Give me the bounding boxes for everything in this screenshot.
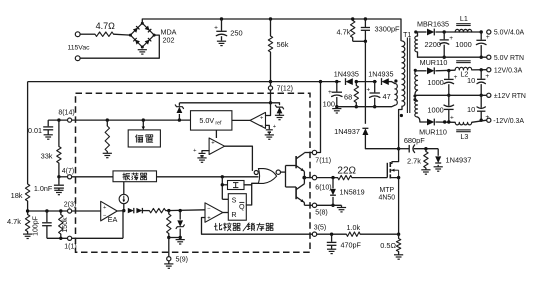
svg-text:1N4937: 1N4937 [334, 127, 360, 136]
NOR gate [258, 169, 276, 184]
terminal 115Vac line [75, 32, 80, 37]
svg-text:4.7k: 4.7k [337, 28, 351, 37]
resistor 33k [58, 120, 60, 146]
resistor 2.7k [425, 149, 427, 152]
wire osc out [157, 176, 259, 178]
capacitor 1.0nF [58, 177, 60, 185]
inductor L2 [456, 60, 471, 62]
current source [123, 182, 125, 195]
svg-text:250: 250 [230, 29, 242, 38]
resistor EA-comp [142, 210, 149, 212]
diode MUR110 a [427, 67, 434, 74]
block 5.0Vref [191, 111, 232, 130]
pin 5(9) [168, 238, 170, 257]
wire ±12V RTN [415, 94, 487, 96]
MOSFET drain stub [391, 149, 399, 164]
wire 6(10) row [317, 177, 338, 179]
svg-text:+: + [273, 124, 277, 130]
svg-text:56k: 56k [277, 40, 289, 49]
svg-text:18k: 18k [11, 191, 23, 200]
resistor 56k [269, 17, 272, 20]
bridge diode top-right [145, 26, 152, 33]
svg-text:10: 10 [467, 76, 475, 85]
bridge diode bottom-left [133, 38, 140, 45]
phasing dot aux [394, 79, 397, 82]
ground (Vref-OK ref) [197, 157, 206, 159]
MOSFET source stub [391, 177, 399, 179]
pin 3(5) [312, 232, 316, 236]
bias block 偏置 [142, 120, 144, 127]
wire comp to R [223, 212, 229, 214]
svg-text:R: R [231, 210, 236, 219]
label 比较器/锁存器 [214, 223, 222, 230]
wire [360, 233, 398, 235]
latch S/R [228, 194, 246, 221]
zener 36V Vcc [271, 103, 280, 105]
svg-text:+: + [103, 205, 107, 211]
ground (1.0nF) [54, 189, 63, 191]
pin 2(3) wire [28, 210, 68, 212]
capacitor 100 Vcc [336, 82, 338, 92]
svg-text:L3: L3 [460, 132, 468, 141]
pin 5(8) [312, 203, 316, 207]
resistor internal Vref [106, 120, 108, 126]
diode EA out a [117, 210, 125, 212]
svg-text:S: S [232, 196, 237, 205]
svg-text:3300pF: 3300pF [375, 25, 401, 34]
svg-text:Q: Q [239, 202, 245, 211]
pin 8(14) wire [48, 119, 67, 121]
resistor 68 [355, 82, 357, 86]
diode 1N4937 gate [437, 149, 439, 156]
svg-text:10: 10 [467, 105, 475, 114]
svg-text:115Vac: 115Vac [67, 44, 90, 51]
wire comp2 out [225, 146, 253, 170]
MOSFET MTP4N50 gate bar [386, 163, 388, 178]
svg-text:5(8): 5(8) [315, 210, 327, 217]
ground (5(8)) [337, 207, 346, 209]
terminal 5.0V [487, 30, 491, 34]
svg-text:1000: 1000 [455, 40, 471, 49]
wire T to gate [244, 184, 252, 186]
svg-text:−: − [207, 206, 211, 212]
svg-text:1N4935: 1N4935 [368, 69, 393, 78]
svg-text:4N50: 4N50 [379, 194, 396, 201]
resistor 0.5Ω [398, 234, 400, 238]
svg-text:100: 100 [323, 99, 335, 108]
resistor 1.0k [346, 232, 360, 236]
svg-text:+: + [454, 74, 458, 81]
svg-text:7(12): 7(12) [277, 86, 293, 93]
wire [114, 33, 131, 36]
resistor 150k [60, 211, 62, 215]
wire Vcc rail [28, 81, 341, 83]
capacitor 1000 (5V) [480, 32, 482, 40]
wire [418, 70, 427, 72]
wire [357, 81, 377, 83]
svg-text:ref: ref [215, 121, 222, 127]
diode 1N5819 [332, 178, 334, 189]
oscillator block 振荡器 [113, 171, 157, 182]
reference UVLO [266, 125, 270, 128]
ground (100 cap) [332, 108, 341, 110]
wire primary to drain [399, 106, 402, 148]
svg-text:+: + [193, 148, 197, 154]
svg-text:2(3): 2(3) [64, 201, 76, 208]
svg-text:1N4937: 1N4937 [446, 155, 472, 164]
pin 7(12) [270, 82, 272, 86]
secondary winding 5V [415, 36, 418, 52]
diode MBR1635 [427, 29, 434, 36]
terminal 5.0V RTN [487, 55, 491, 59]
svg-text:+: + [214, 24, 218, 31]
svg-text:47: 47 [383, 92, 391, 101]
capacitor 0.01 [47, 120, 49, 126]
svg-text:5.0V RTN: 5.0V RTN [494, 55, 524, 62]
pin 4(7) wire [57, 175, 60, 178]
diode EA out b [136, 208, 142, 213]
wire left rail [27, 82, 29, 184]
wire osc to S [221, 177, 223, 200]
inductor L3 [455, 122, 472, 125]
svg-text:470pF: 470pF [341, 241, 362, 250]
resistor 4.7k divider [27, 211, 29, 215]
svg-text:1000: 1000 [427, 78, 443, 87]
diode 1N4935 a [346, 78, 353, 85]
svg-text:−: − [103, 213, 107, 219]
capacitor 10 b [480, 95, 482, 107]
svg-text:2.7k: 2.7k [407, 156, 421, 165]
phasing dot primary [400, 114, 403, 117]
svg-text:150k: 150k [62, 217, 69, 233]
zener osc [179, 211, 181, 220]
MOSFET channel [389, 162, 391, 167]
terminal 12V [487, 68, 491, 72]
ground (internal) [103, 152, 112, 154]
reference Vref-OK [202, 151, 209, 153]
wire UVLO Vcc [266, 103, 271, 116]
wire [385, 81, 392, 83]
ground (1N4937) [434, 166, 443, 168]
capacitor 1000 (+12V) [448, 71, 450, 79]
svg-text:1000: 1000 [427, 105, 443, 114]
wire 5(8) row [317, 204, 342, 206]
IC UC3842 boundary (dashed) [76, 93, 311, 252]
ground (zener osc) [179, 238, 181, 240]
secondary winding -12V [415, 95, 418, 101]
svg-text:5(9): 5(9) [176, 257, 188, 264]
svg-text:+: + [328, 89, 332, 96]
svg-text:0.5Ω: 0.5Ω [380, 241, 396, 250]
ground (470pF) [327, 248, 336, 250]
transistor totem bottom [295, 187, 297, 199]
pin 1(1) wire [47, 237, 68, 239]
wire neutral return [80, 35, 159, 58]
svg-text:+: + [449, 35, 453, 42]
junction [480, 30, 483, 33]
phasing dot sec1 [414, 30, 417, 33]
ground (4.7k) [27, 232, 29, 234]
svg-text:202: 202 [163, 36, 175, 45]
aux winding [395, 84, 397, 106]
svg-text:680pF: 680pF [404, 136, 425, 145]
svg-text:MBR1635: MBR1635 [417, 19, 449, 28]
comparator current-sense [205, 203, 223, 223]
capacitor 10 a [480, 70, 482, 79]
wire +DC rail [142, 19, 401, 41]
svg-text:+: + [366, 87, 370, 94]
svg-text:0.01: 0.01 [28, 126, 42, 135]
wire [179, 102, 270, 104]
svg-text:1N5819: 1N5819 [340, 188, 365, 197]
wire 5V RTN [418, 56, 487, 58]
svg-text:3(5): 3(5) [314, 225, 326, 232]
terminal 115Vac neutral [75, 56, 80, 61]
MOSFET body arrow [391, 169, 399, 171]
svg-text:8(14): 8(14) [58, 110, 74, 117]
svg-text:4.7k: 4.7k [7, 217, 21, 226]
capacitor 2200 [443, 32, 445, 39]
svg-text:12V/0.3A: 12V/0.3A [494, 67, 523, 74]
junction [141, 22, 144, 25]
svg-text:−: − [260, 123, 264, 129]
capacitor 3300pF [364, 17, 367, 20]
transistor totem top [295, 156, 297, 168]
svg-text:+: + [486, 34, 490, 41]
bridge rectifier MDA202 [130, 23, 154, 47]
secondary winding +12V [415, 71, 418, 90]
bridge diode top-left [133, 26, 140, 33]
wire Qbar feedback [246, 183, 258, 205]
wire 7(11) to Vcc [317, 82, 321, 153]
wire gate out [281, 171, 286, 173]
svg-text:MTP: MTP [380, 187, 395, 194]
ground (bridge) [141, 47, 143, 49]
ground (5(9)) [164, 263, 173, 265]
svg-text:MUR110: MUR110 [420, 58, 448, 67]
ground (UVLO ref) [265, 134, 274, 136]
svg-text:EA: EA [108, 215, 118, 224]
svg-text:5.0V/4.0A: 5.0V/4.0A [494, 30, 525, 37]
wire [435, 31, 481, 33]
terminal ±12V RTN [487, 93, 491, 97]
ground (0.5Ω) [398, 252, 400, 255]
phasing dot sec2 [414, 69, 417, 72]
diode 1N4935 b [382, 78, 389, 85]
diode MUR110 b [427, 119, 434, 126]
svg-text:1.0nF: 1.0nF [34, 184, 53, 193]
capacitor 470pF [331, 234, 333, 242]
resistor 4.7Ω [95, 32, 114, 36]
svg-text:68: 68 [344, 92, 352, 101]
capacitor 47 [374, 82, 376, 93]
svg-text:-12V/0.3A: -12V/0.3A [493, 118, 524, 125]
capacitor 1000 (-12V) [448, 95, 450, 106]
pin 6(10) [312, 175, 316, 179]
wire 3(5) row [202, 218, 313, 235]
resistor 18k [25, 184, 29, 201]
diode 1N4937 clamp [362, 128, 368, 135]
svg-text:2200: 2200 [425, 40, 441, 49]
capacitor 100pF [46, 211, 48, 222]
ground (0.01) [44, 134, 53, 136]
wire [80, 33, 95, 35]
svg-text:5.0V: 5.0V [199, 116, 214, 125]
transformer core [406, 38, 408, 114]
svg-text:+: + [450, 114, 454, 121]
svg-text:+: + [485, 73, 489, 80]
wire base split [285, 166, 287, 188]
comparator UVLO [250, 112, 266, 128]
junction output node [302, 176, 306, 180]
junction [269, 80, 272, 83]
resistor 22Ω [338, 175, 352, 179]
svg-text:MUR110: MUR110 [419, 128, 447, 137]
resistor to 5(9) [168, 211, 170, 214]
pin 7(11) [312, 150, 316, 154]
svg-text:±12V RTN: ±12V RTN [494, 93, 526, 100]
svg-text:+: + [260, 116, 264, 122]
wire gate [352, 177, 387, 179]
svg-text:4(7): 4(7) [62, 168, 74, 175]
comparator Vref-OK [215, 130, 217, 138]
primary winding [402, 41, 405, 106]
svg-text:1N4935: 1N4935 [334, 69, 359, 78]
wire [435, 121, 455, 123]
wire [416, 31, 427, 33]
capacitor 250 [220, 17, 223, 20]
svg-text:100pF: 100pF [32, 216, 39, 236]
wire [232, 119, 250, 121]
svg-text:L1: L1 [460, 14, 468, 23]
svg-text:7(11): 7(11) [315, 158, 331, 165]
error amp EA [101, 201, 118, 221]
wire source drop [398, 178, 400, 235]
zener Vref [178, 114, 180, 120]
svg-text:4.7Ω: 4.7Ω [96, 21, 116, 31]
svg-text:1.0k: 1.0k [347, 223, 361, 232]
svg-text:33k: 33k [41, 151, 53, 160]
svg-text:22Ω: 22Ω [337, 165, 356, 176]
ground (2.7k) [425, 168, 427, 170]
T flip-flop box [228, 181, 245, 190]
svg-text:1(1): 1(1) [64, 243, 76, 250]
wire [304, 177, 312, 179]
wire [365, 135, 398, 149]
ground (cap 250) [217, 40, 226, 42]
ground (zener) [275, 114, 284, 116]
wire aux bottom [337, 105, 395, 107]
wire snubber drop [364, 41, 366, 124]
svg-text:6(10): 6(10) [315, 184, 331, 191]
terminal -12V [487, 118, 491, 122]
bridge diode bottom-right [145, 38, 152, 45]
resistor 4.7k snubber [351, 17, 354, 20]
wire [435, 69, 455, 72]
